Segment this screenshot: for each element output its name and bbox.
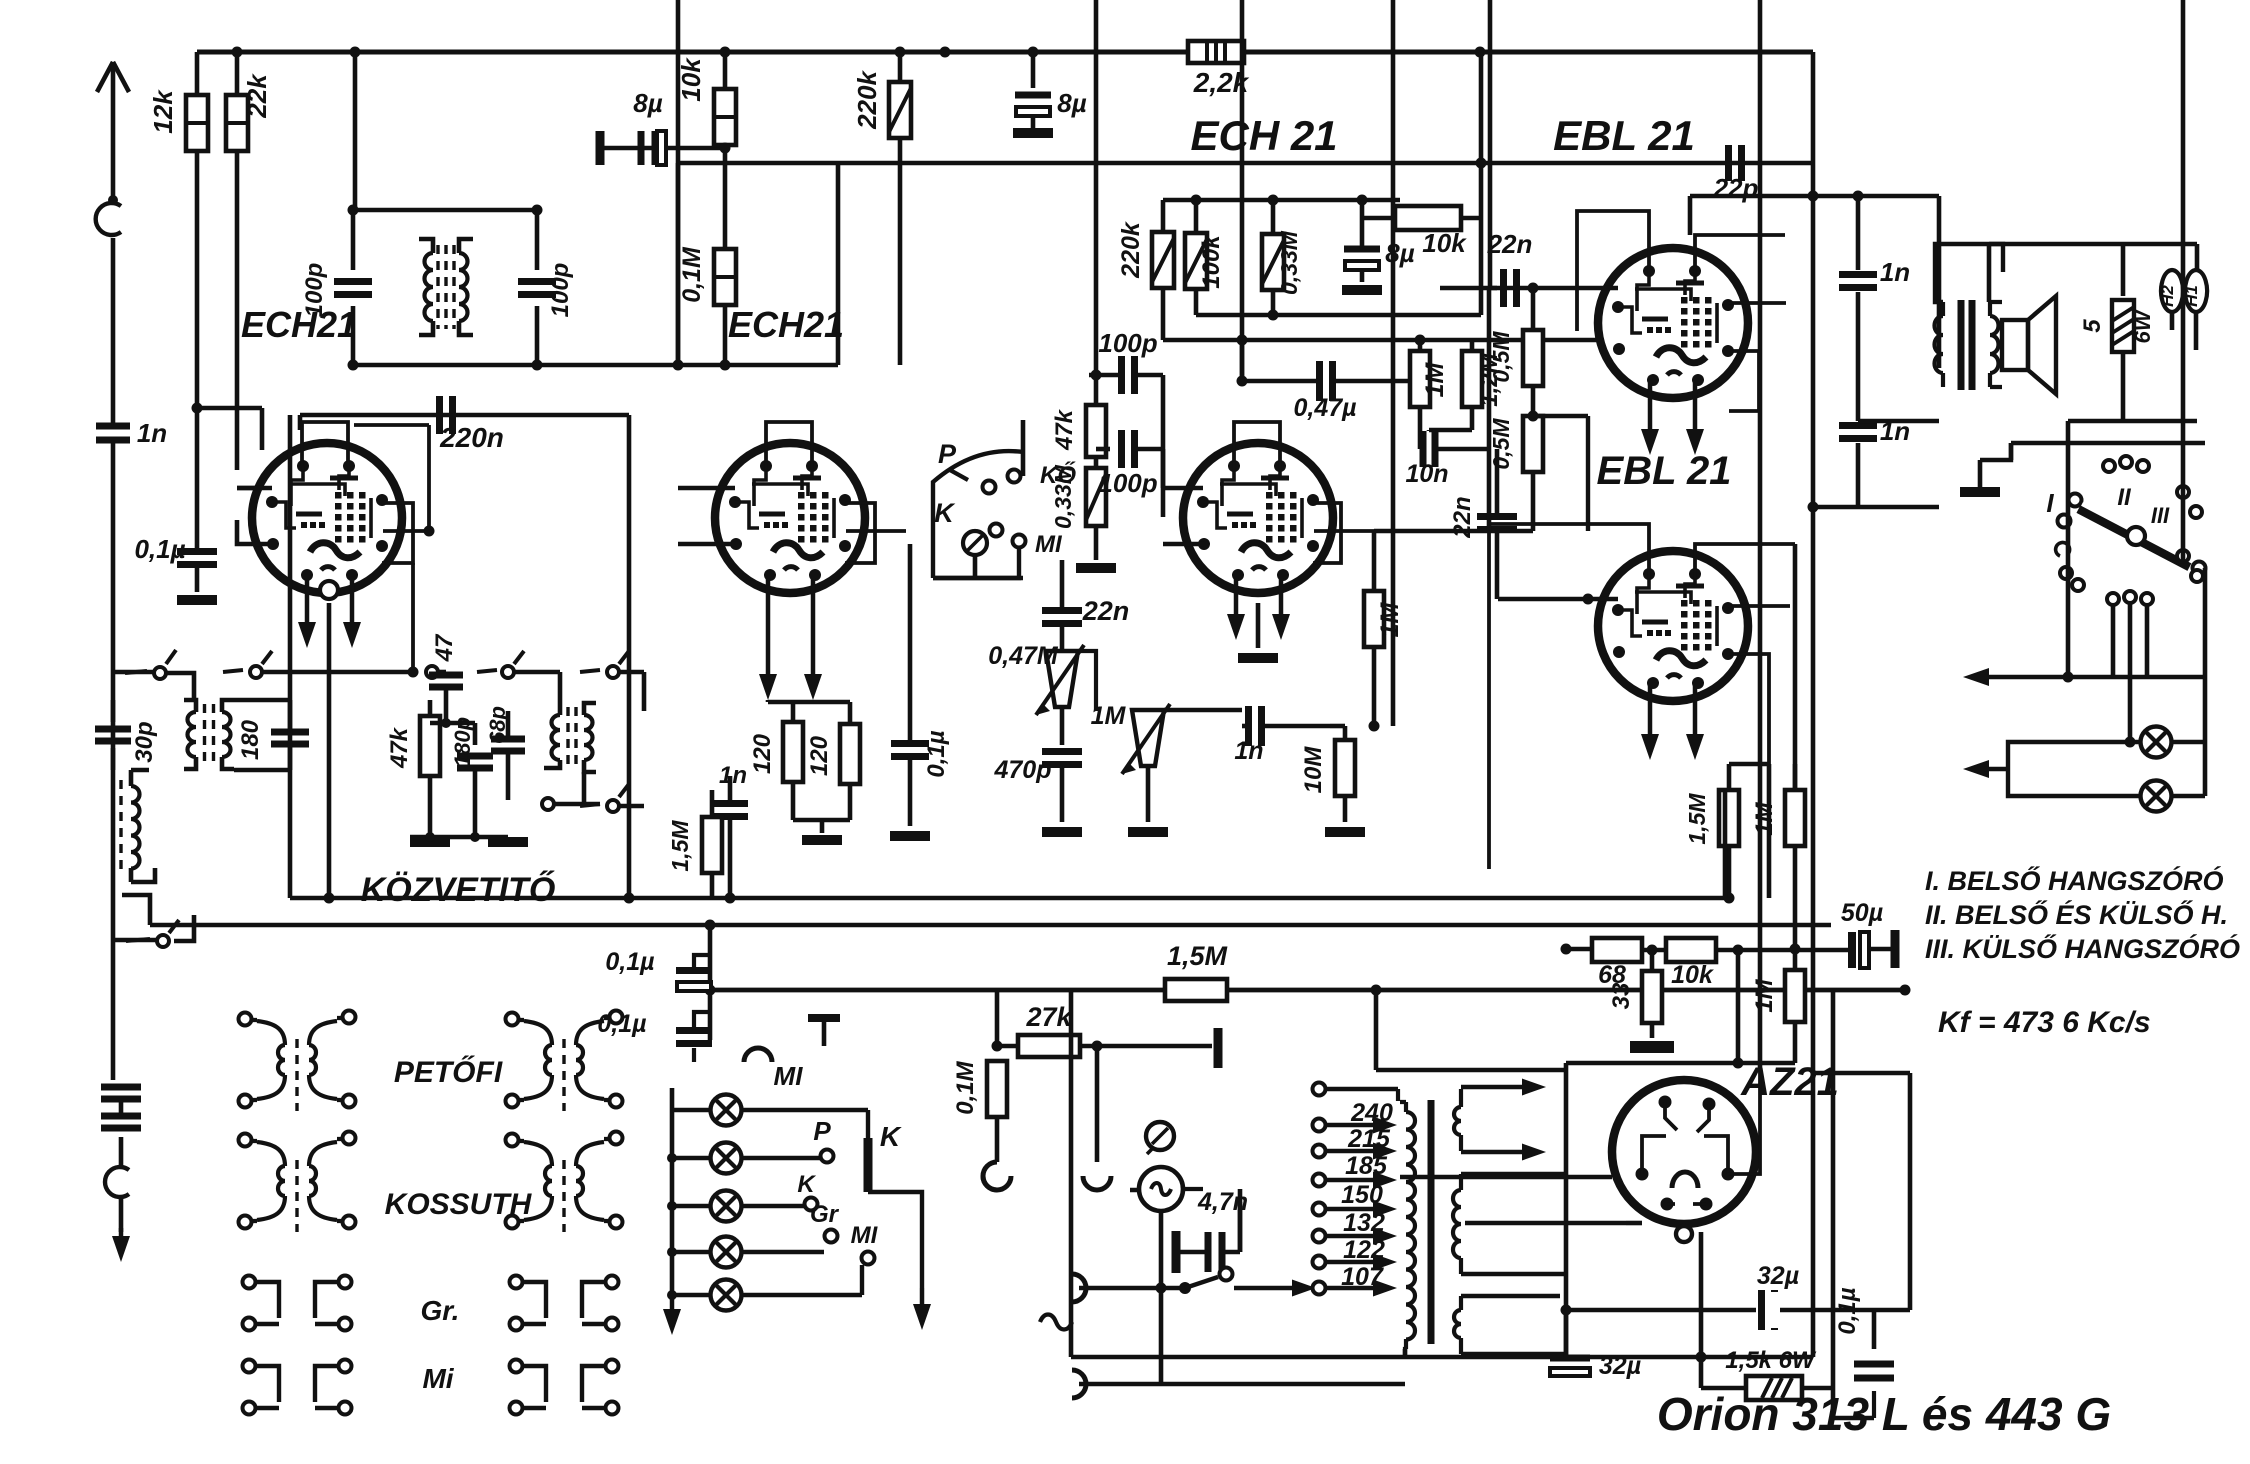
svg-text:10k: 10k xyxy=(1671,961,1714,989)
svg-text:100p: 100p xyxy=(547,263,574,318)
svg-text:1,5k 6W: 1,5k 6W xyxy=(1725,1347,1817,1374)
svg-text:H2: H2 xyxy=(2158,285,2177,307)
svg-text:8µ: 8µ xyxy=(633,88,662,118)
svg-text:Gr.: Gr. xyxy=(421,1295,460,1326)
svg-text:III: III xyxy=(2151,503,2170,528)
svg-text:12k: 12k xyxy=(148,89,178,134)
svg-text:100p: 100p xyxy=(1098,328,1157,358)
svg-text:22k: 22k xyxy=(242,73,272,119)
svg-text:MI: MI xyxy=(1035,531,1063,558)
svg-text:Gr: Gr xyxy=(810,1201,840,1228)
svg-text:I. BELSŐ HANGSZÓRÓ: I. BELSŐ HANGSZÓRÓ xyxy=(1925,865,2224,896)
svg-text:III. KÜLSŐ HANGSZÓRÓ: III. KÜLSŐ HANGSZÓRÓ xyxy=(1925,933,2240,964)
svg-text:ECH 21: ECH 21 xyxy=(1190,112,1337,159)
svg-text:P: P xyxy=(813,1116,831,1146)
svg-text:0,33M: 0,33M xyxy=(1050,464,1076,529)
svg-text:47k: 47k xyxy=(386,726,413,769)
svg-text:10n: 10n xyxy=(1405,460,1448,488)
svg-text:180p: 180p xyxy=(450,717,475,767)
svg-text:0,5M: 0,5M xyxy=(1488,418,1514,470)
svg-text:22n: 22n xyxy=(1082,596,1130,626)
svg-text:ECH21: ECH21 xyxy=(241,304,357,345)
svg-text:1M: 1M xyxy=(1376,601,1404,637)
svg-text:0,1M: 0,1M xyxy=(678,246,706,303)
svg-text:22n: 22n xyxy=(1487,229,1533,259)
svg-text:I: I xyxy=(2046,488,2054,518)
svg-text:1M: 1M xyxy=(1091,702,1127,730)
svg-text:Mi: Mi xyxy=(422,1363,454,1394)
svg-text:120: 120 xyxy=(806,735,833,776)
svg-text:PETŐFI: PETŐFI xyxy=(394,1055,503,1089)
svg-text:5: 5 xyxy=(2079,319,2106,333)
svg-text:180: 180 xyxy=(237,719,264,760)
svg-text:Orion 313 L és 443 G: Orion 313 L és 443 G xyxy=(1657,1388,2111,1440)
svg-text:220n: 220n xyxy=(439,422,504,453)
svg-text:K: K xyxy=(797,1171,816,1198)
svg-text:50µ: 50µ xyxy=(1841,899,1883,927)
svg-text:II. BELSŐ ÉS KÜLSŐ H.: II. BELSŐ ÉS KÜLSŐ H. xyxy=(1925,899,2228,930)
svg-text:33: 33 xyxy=(1608,982,1635,1009)
svg-text:0,1µ: 0,1µ xyxy=(923,730,950,777)
svg-text:30p: 30p xyxy=(131,721,158,762)
svg-text:47k: 47k xyxy=(1051,408,1078,451)
svg-text:1n: 1n xyxy=(137,418,167,448)
svg-text:27k: 27k xyxy=(1025,1002,1073,1032)
svg-text:0,47µ: 0,47µ xyxy=(1293,394,1356,422)
svg-text:1,5M: 1,5M xyxy=(1684,793,1710,845)
svg-text:1n: 1n xyxy=(1880,257,1910,287)
svg-text:10k: 10k xyxy=(676,57,706,102)
svg-text:1,5M: 1,5M xyxy=(667,820,693,872)
svg-text:K: K xyxy=(880,1121,902,1152)
svg-text:ECH21: ECH21 xyxy=(728,304,844,345)
svg-text:Kf = 473 6 Kc/s: Kf = 473 6 Kc/s xyxy=(1938,1006,2151,1039)
svg-text:470p: 470p xyxy=(994,756,1052,784)
svg-text:KÖZVETITŐ: KÖZVETITŐ xyxy=(361,871,556,909)
svg-text:1M: 1M xyxy=(1751,801,1778,835)
svg-text:0,5M: 0,5M xyxy=(1488,331,1514,383)
svg-text:8µ: 8µ xyxy=(1385,238,1414,268)
svg-text:KOSSUTH: KOSSUTH xyxy=(385,1188,533,1221)
svg-text:1n: 1n xyxy=(1234,737,1263,765)
svg-text:0,1µ: 0,1µ xyxy=(605,948,654,976)
svg-text:0,1M: 0,1M xyxy=(952,1060,979,1114)
svg-text:1M: 1M xyxy=(1421,361,1449,397)
svg-text:10M: 10M xyxy=(1300,746,1327,794)
svg-text:0,33M: 0,33M xyxy=(1276,230,1302,295)
svg-text:K: K xyxy=(934,498,956,528)
svg-text:6W: 6W xyxy=(2130,308,2155,343)
svg-text:P: P xyxy=(938,439,957,469)
svg-text:1n: 1n xyxy=(719,762,747,789)
svg-text:AZ21: AZ21 xyxy=(1740,1060,1839,1104)
svg-text:EBL 21: EBL 21 xyxy=(1597,449,1732,493)
svg-text:220k: 220k xyxy=(852,70,882,130)
svg-text:47: 47 xyxy=(431,633,458,662)
svg-text:120: 120 xyxy=(749,733,776,774)
svg-text:10k: 10k xyxy=(1422,228,1467,258)
svg-text:1M: 1M xyxy=(1751,978,1778,1012)
svg-text:32µ: 32µ xyxy=(1757,1262,1799,1290)
svg-text:100p: 100p xyxy=(1098,468,1157,498)
svg-text:EBL 21: EBL 21 xyxy=(1553,112,1695,159)
svg-text:1,5M: 1,5M xyxy=(1167,941,1228,971)
svg-text:8µ: 8µ xyxy=(1057,88,1086,118)
svg-text:0,47M: 0,47M xyxy=(988,642,1059,670)
svg-text:MI: MI xyxy=(774,1061,804,1091)
svg-text:MI: MI xyxy=(851,1222,879,1249)
svg-text:220k: 220k xyxy=(1117,221,1145,279)
svg-text:22p: 22p xyxy=(1713,173,1759,203)
svg-text:II: II xyxy=(2117,484,2132,511)
svg-text:100k: 100k xyxy=(1198,234,1225,289)
